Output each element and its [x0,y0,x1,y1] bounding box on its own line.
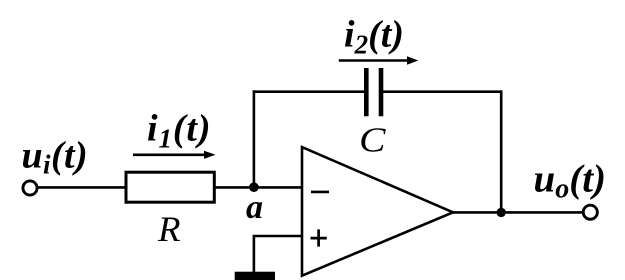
minus sign [311,191,329,194]
op-amp U1 [302,147,453,276]
plus sign [311,229,327,246]
feedback wire left [253,90,367,93]
svg-text:i2(t): i2(t) [344,14,404,60]
svg-text:a: a [246,189,263,226]
input terminal [23,181,37,195]
feedback wire right [381,90,503,93]
arrow i2 [339,56,419,64]
svg-text:uo(t): uo(t) [534,158,607,205]
wire node a up to feedback [253,90,256,187]
wire feedback down to output node [500,90,503,212]
ground [235,272,275,280]
svg-text:i1(t): i1(t) [147,108,211,154]
capacitor C [366,68,381,116]
wire resistor to op-amp minus input [215,186,303,189]
resistor R [126,172,214,202]
output terminal [583,205,597,219]
svg-text:ui(t): ui(t) [22,134,89,179]
arrow i1 [133,151,216,159]
output wire [453,211,582,214]
wire input to resistor [38,186,126,189]
node a dot [249,182,259,192]
svg-text:C: C [359,121,386,159]
svg-text:R: R [157,209,181,249]
wire plus input [253,235,302,238]
output node dot [497,208,506,217]
wire plus input down to ground [253,236,256,272]
